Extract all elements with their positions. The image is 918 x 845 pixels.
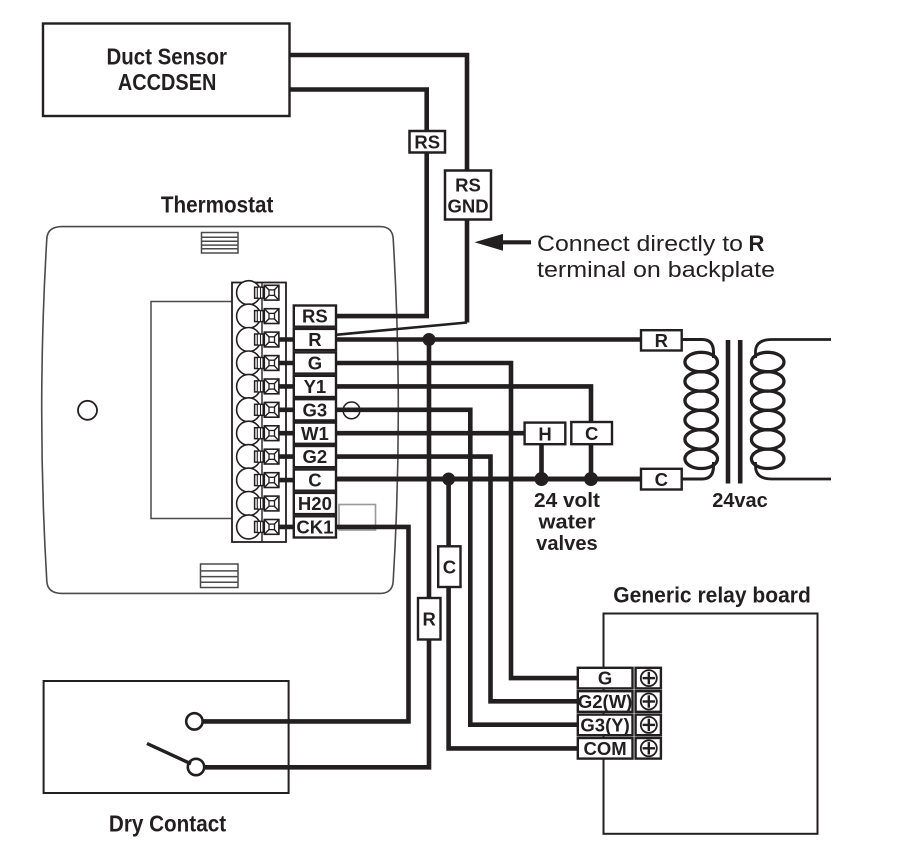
svg-text:RS: RS [414,132,440,153]
wire: C down to relay board COM [449,479,578,748]
wire: RS GND diagonal to R terminal [336,323,467,335]
svg-text:R: R [423,608,436,629]
terminal row G2: pin [255,451,264,462]
wire: stub terminal G [279,361,295,366]
svg-text:G: G [598,668,612,689]
wire: H valve to C bus [539,444,544,479]
wire: G3 terminal to relay board G3(Y) [336,410,578,725]
svg-text:G2(W): G2(W) [578,691,632,712]
terminal row RS: screw [264,309,279,324]
terminal row G: screw [264,356,279,371]
valve label H [525,423,566,445]
svg-text:R: R [308,329,321,350]
relay terminal G3(Y) [578,715,633,736]
terminal row Y1: pin [255,381,264,392]
terminal row C: wire hole [237,468,261,492]
terminal row G3: screw [264,402,279,417]
dry contact label [109,811,226,837]
thermostat label [161,192,274,218]
wire: stub terminal Y1 [279,384,295,389]
wire: CK1 to dry contact [203,527,409,722]
wire: duct sensor to RS terminal [290,90,427,317]
annotation arrow [475,234,532,251]
terminal row Y1: screw [264,379,279,394]
dry contact switch lever [147,744,191,764]
terminal row CK1: wire hole [237,515,261,539]
svg-text:R: R [749,231,765,256]
svg-text:COM: COM [584,738,627,759]
terminal row unlabeled: screw [264,285,279,300]
svg-text:C: C [443,556,456,577]
terminal row G: wire hole [237,351,261,375]
terminal label CK1 [294,516,336,537]
relay screw G3(Y) [636,715,661,736]
relay terminal COM [578,738,633,759]
terminal label Y1 [294,376,336,397]
svg-text:C: C [585,423,598,444]
svg-text:C: C [308,470,321,491]
terminal row G3: pin [255,404,264,415]
svg-text:24 volt: 24 volt [534,490,600,512]
wire: C terminal to transformer C [336,477,641,482]
duct sensor ACCDSEN [43,24,290,117]
terminal row H20: pin [255,498,264,509]
svg-text:RS: RS [455,175,481,196]
svg-text:W1: W1 [301,423,329,444]
terminal row unlabeled: wire hole [237,281,261,305]
wire: stub terminal R [279,337,295,342]
thermostat bottom vent [201,564,239,588]
terminal row W1: screw [264,426,279,441]
svg-text:CK1: CK1 [296,517,333,538]
svg-text:RS: RS [302,306,328,327]
terminal row RS: pin [255,311,264,322]
generic relay board box [604,614,818,834]
dry contact box [44,681,289,793]
terminal row R: screw [264,332,279,347]
relay screw COM [636,738,661,759]
svg-text:water: water [537,512,595,534]
dry contact bottom terminal [188,759,204,775]
wire: duct sensor to RS GND vertical [290,55,468,323]
wire: transformer secondary top [756,340,832,359]
relay screw G [636,668,661,689]
svg-text:Duct Sensor: Duct Sensor [107,44,228,70]
terminal row CK1: pin [255,521,264,532]
svg-text:H20: H20 [298,493,332,514]
24 volt water valves label [534,490,600,555]
label R on wire to dry contact [418,598,441,640]
wire: G2 terminal to relay board G2(W) [336,457,578,702]
terminal strip [232,283,286,543]
wire: R down to dry contact [204,340,429,768]
generic relay board label [613,583,811,608]
valve label C [571,422,612,444]
svg-text:R: R [655,330,668,351]
junction node C1 [442,473,455,486]
svg-text:terminal on backplate: terminal on backplate [537,257,775,282]
terminal row Y1: wire hole [237,374,261,398]
terminal row H20: screw [264,496,279,511]
svg-text:G3(Y): G3(Y) [580,715,629,736]
terminal row C: screw [264,473,279,488]
wire: C valve to C bus [589,444,594,479]
thermostat display window [151,302,246,519]
label RS on wire [410,131,446,153]
svg-text:24vac: 24vac [712,490,768,512]
label RS GND on wire [445,171,491,220]
svg-text:Thermostat: Thermostat [161,192,274,218]
terminal row G2: wire hole [237,445,261,469]
relay screw G2(W) [636,691,661,712]
thermostat top vent [202,233,239,254]
terminal row RS: wire hole [237,304,261,328]
terminal label G [294,352,336,373]
terminal label H20 [294,493,336,514]
terminal row R: wire hole [237,328,261,352]
terminal label C [294,470,336,491]
transformer terminal R [641,330,682,351]
wire: R terminal to transformer R [336,337,641,342]
transformer secondary coil [751,352,784,468]
transformer core [728,340,740,484]
thermostat reset button [78,401,97,420]
24vac label [712,490,768,512]
svg-text:Generic relay board: Generic relay board [613,583,811,608]
wire: transformer secondary bottom [756,462,832,479]
svg-text:Connect directly to: Connect directly to [537,231,743,256]
terminal row R: pin [255,334,264,345]
terminal row G: pin [255,358,264,369]
svg-text:Y1: Y1 [304,376,327,397]
annotation text [537,231,775,282]
wire: transformer primary bottom [682,462,714,479]
wire: stub terminal G3 [279,407,295,412]
terminal row G3: wire hole [237,398,261,422]
svg-text:H: H [538,424,551,445]
wire: Y1 terminal to valve C [336,386,591,422]
terminal label G2 [294,446,336,467]
svg-text:GND: GND [447,196,488,217]
transformer primary coil [685,352,718,468]
terminal row C: pin [255,475,264,486]
terminal row CK1: screw [264,520,279,535]
svg-text:G2: G2 [303,446,328,467]
thermostat body [42,227,399,594]
terminal label W1 [294,423,336,444]
terminal row W1: pin [255,428,264,439]
terminal row unlabeled: pin [255,287,264,298]
junction node H-C bus [535,472,549,486]
small circle right of G3 [343,402,360,419]
svg-text:G: G [308,353,322,374]
relay terminal G [578,668,633,689]
terminal label R [294,329,336,350]
wire: stub terminal G2 [279,454,295,459]
gray placeholder box near CK1 [339,505,376,531]
svg-text:C: C [655,469,668,490]
dry contact top terminal [186,713,202,729]
junction node Cvalve-C bus [584,472,598,486]
svg-text:ACCDSEN: ACCDSEN [118,69,216,95]
relay terminal G2(W) [578,691,633,712]
wire: W1 terminal to valve H [336,431,525,436]
junction node R [423,333,436,346]
svg-text:valves: valves [536,533,598,555]
wire: stub terminal CK1 [279,525,295,530]
label C on wire to relay board [438,546,460,587]
wire: stub terminal C [279,478,295,483]
terminal label G3 [294,399,336,420]
terminal row W1: wire hole [237,421,261,445]
terminal label RS [294,306,336,327]
terminal row H20: wire hole [237,492,261,516]
svg-text:Dry Contact: Dry Contact [109,811,226,837]
transformer terminal C [641,469,682,490]
wire: transformer primary top [682,340,714,359]
wire: stub terminal W1 [279,431,295,436]
terminal row G2: screw [264,449,279,464]
wire: G terminal to relay board G [336,363,578,678]
svg-text:G3: G3 [303,399,328,420]
